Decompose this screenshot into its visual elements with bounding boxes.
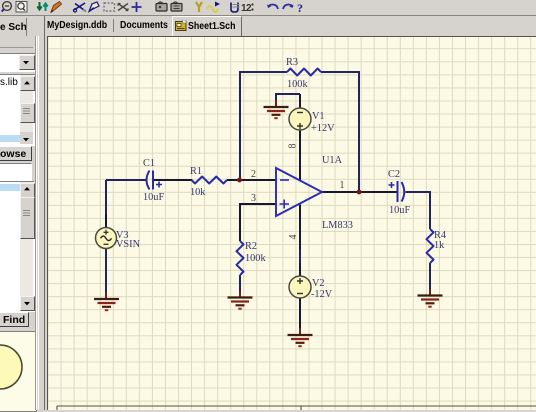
svg-text:-12V: -12V xyxy=(311,289,333,300)
svg-text:R3: R3 xyxy=(286,57,298,68)
wire C1 to R1 xyxy=(154,179,192,181)
svg-text:LM833: LM833 xyxy=(322,220,353,231)
dashed rect icon xyxy=(104,3,115,11)
svg-text:V1: V1 xyxy=(312,111,325,122)
ground for V1 xyxy=(264,100,289,118)
crossed arrows icon xyxy=(118,4,128,11)
ground for V3 xyxy=(94,292,119,310)
svg-text:1: 1 xyxy=(340,180,345,191)
wire R2 to ground xyxy=(239,275,241,296)
tab strip row xyxy=(0,16,536,36)
zoom doc icon xyxy=(16,2,27,13)
wire V3 top stub xyxy=(105,180,107,228)
svg-text:100k: 100k xyxy=(245,253,266,264)
selected component row xyxy=(0,184,20,191)
wave icon xyxy=(207,2,220,13)
active tab text xyxy=(188,21,235,32)
wire V1 ground loop xyxy=(276,94,300,105)
listbox2 scrollbar xyxy=(20,182,33,309)
annotate icon xyxy=(231,3,240,13)
svg-text:3: 3 xyxy=(251,193,256,204)
active tab Sheet1.Sch xyxy=(172,16,242,36)
voltage source V2 xyxy=(289,276,311,298)
redo icon xyxy=(283,5,294,10)
wire V2 to ground xyxy=(299,298,301,333)
wire C2 to R4 xyxy=(406,192,431,229)
junction node at pin2 xyxy=(237,178,242,183)
pencil icon xyxy=(51,2,62,13)
pin 4 line xyxy=(299,205,301,277)
svg-text:10k: 10k xyxy=(190,187,206,198)
svg-text:10uF: 10uF xyxy=(143,192,164,203)
wire V3 to ground xyxy=(105,249,107,296)
svg-text:R2: R2 xyxy=(245,241,257,252)
preview pane xyxy=(0,331,37,412)
svg-text:R1: R1 xyxy=(190,166,202,177)
voltage source V1 xyxy=(289,108,311,130)
ground for V2 xyxy=(288,328,313,346)
resistor R2 xyxy=(237,241,244,275)
svg-text:U1A: U1A xyxy=(322,155,343,166)
sheet icon xyxy=(175,20,187,31)
listbox1 scrollbar xyxy=(20,75,33,143)
junction node at output xyxy=(357,190,362,195)
wire input from V3 corner to C1 xyxy=(106,179,146,181)
svg-text:2: 2 xyxy=(251,169,256,180)
cutter icon xyxy=(73,3,86,12)
Find button xyxy=(0,312,29,327)
left browse panel xyxy=(0,36,44,410)
tab MyDesign.ddb xyxy=(47,20,107,31)
svg-text:2: 2 xyxy=(246,3,252,14)
reannotate icon xyxy=(241,3,254,14)
sheet border bottom xyxy=(57,406,536,410)
libraries listbox xyxy=(0,74,36,146)
pen icon xyxy=(89,2,99,12)
preview symbol circle xyxy=(0,332,36,411)
wire output pin1 to C2 xyxy=(322,191,397,193)
svg-text:V2: V2 xyxy=(312,278,325,289)
probe Y icon xyxy=(196,2,202,12)
svg-text:100k: 100k xyxy=(287,79,308,90)
voltage source V3 xyxy=(96,228,117,249)
svg-text:10uF: 10uF xyxy=(389,205,410,216)
Browse button xyxy=(0,146,32,161)
help icon xyxy=(297,1,303,15)
selected library row xyxy=(0,135,20,142)
filter edit xyxy=(0,163,32,181)
panel etched line xyxy=(0,47,33,48)
updown arrows icon xyxy=(37,2,47,11)
svg-text:8: 8 xyxy=(288,144,299,149)
svg-text:C2: C2 xyxy=(388,169,400,180)
stamp icon 1 xyxy=(156,2,167,11)
left panel tab: e Sch xyxy=(0,18,27,39)
tab Documents xyxy=(120,20,168,31)
doc window left edge xyxy=(44,16,45,36)
wire V1 top stub xyxy=(299,94,301,108)
ground for R4 xyxy=(418,289,443,307)
svg-text:+12V: +12V xyxy=(311,123,335,134)
wire feedback left vertical xyxy=(240,72,287,180)
toolbar xyxy=(0,0,536,16)
svg-text:4: 4 xyxy=(288,235,299,240)
resistor R1 xyxy=(192,177,228,184)
wire feedback right xyxy=(321,72,359,192)
svg-text:?: ? xyxy=(297,1,303,15)
ground for R2 xyxy=(228,291,253,309)
library combo xyxy=(0,53,36,72)
wire pin3 to R2 xyxy=(240,204,276,241)
svg-text:1k: 1k xyxy=(434,240,445,251)
resistor R3 xyxy=(287,69,321,76)
resistor R4 xyxy=(427,229,434,263)
capacitor C2 xyxy=(389,181,405,202)
stamp icon 2 xyxy=(171,2,182,11)
wire R1 to pin2 xyxy=(227,179,276,181)
op-amp U1 triangle xyxy=(276,168,322,216)
capacitor C1 xyxy=(147,171,163,190)
svg-text:C1: C1 xyxy=(143,158,155,169)
pin 8 line xyxy=(299,130,301,180)
zoom out icon xyxy=(2,2,12,12)
svg-text:VSIN: VSIN xyxy=(116,239,141,250)
splitter strips xyxy=(35,36,36,410)
wire R4 to ground xyxy=(429,263,431,294)
undo icon xyxy=(267,5,278,10)
components listbox xyxy=(0,181,35,312)
plus cursor icon xyxy=(132,2,142,12)
